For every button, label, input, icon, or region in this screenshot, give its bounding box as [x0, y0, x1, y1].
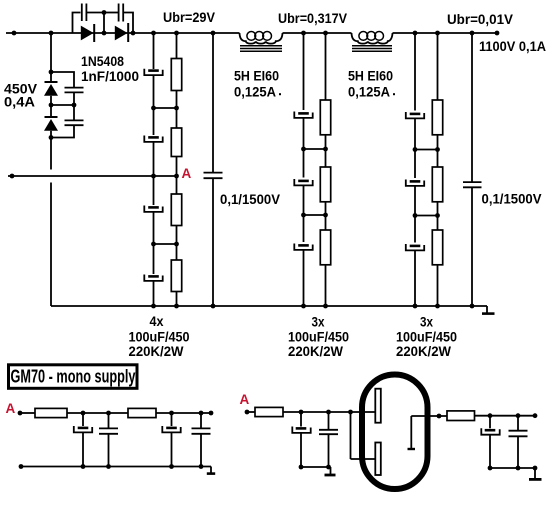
wire bottom-left input — [20, 412, 35, 414]
node lower rail CR4 — [516, 466, 521, 471]
bank1 rung node A row — [151, 174, 179, 179]
wire bottom-left lower rail — [21, 466, 211, 468]
node doubler mid junction — [49, 103, 54, 108]
wire tube anode out — [411, 415, 447, 417]
bank1 bottom nodes — [151, 304, 179, 309]
bank2 capacitor column segments — [303, 33, 305, 306]
resistor bank3 R2 — [432, 167, 442, 202]
svg-text:A: A — [240, 392, 250, 407]
resistor bank2 R2 — [320, 167, 330, 202]
svg-text:A: A — [182, 166, 192, 181]
node lower rail CR1 — [299, 465, 304, 470]
capacitor bank3 elco1 — [406, 112, 424, 118]
stray period after L1 label — [279, 93, 281, 95]
bank1 capacitor column segments — [153, 33, 155, 306]
inductor L2 5H choke — [352, 32, 393, 52]
bank3 capacitor column segments — [414, 33, 416, 306]
diode D1 1N5408 — [81, 24, 94, 42]
wire to tube bottom grid — [351, 458, 376, 460]
ground bottom-left — [207, 467, 215, 474]
diode D2 1N5408 — [115, 23, 128, 42]
capacitor bank1 elco4 100uF — [144, 275, 162, 281]
capacitor damper 0,1/1500V no1 — [204, 33, 223, 308]
node lower rail CL3 — [169, 464, 174, 469]
resistor bank3 R1 — [432, 100, 442, 135]
node top rail damper cap1 — [211, 31, 216, 36]
wire bottom-right output — [475, 415, 536, 417]
wire between D3 and D4 — [50, 96, 52, 117]
bank1 resistor column segments — [176, 33, 178, 306]
svg-text:1nF/1000: 1nF/1000 — [81, 69, 139, 84]
node lower rail end — [533, 466, 538, 471]
svg-text:220K/2W: 220K/2W — [129, 344, 184, 359]
wire bottom rail — [51, 305, 487, 307]
node top rail bank1 resistor column — [174, 31, 179, 36]
capacitor elco CL3 — [162, 413, 180, 467]
node lower rail CL4 — [199, 464, 204, 469]
wire bottom-left output — [156, 412, 211, 414]
wire snubber middle riser — [103, 13, 105, 34]
node snubber top junction — [102, 10, 107, 15]
node junction cap L4 — [199, 411, 204, 416]
node bottom-left output terminal — [209, 411, 214, 416]
svg-text:1N5408: 1N5408 — [81, 54, 124, 69]
resistor bank2 R1 — [320, 100, 330, 135]
wire bottom-right lower rail left — [301, 466, 331, 468]
node top rail bank2 resistor column — [323, 31, 328, 36]
resistor bank2 R3 — [320, 230, 330, 265]
wire left branch down to diodes — [50, 33, 52, 82]
resistor bank1 R3 220K — [171, 194, 181, 226]
resistor RL2 — [128, 408, 156, 417]
bank3 rung 1 — [413, 147, 440, 152]
node junction left branch — [49, 31, 54, 36]
wire top rail middle segment — [283, 32, 352, 34]
node junction cap R4 — [516, 413, 521, 418]
capacitor C4 parallel lower — [51, 105, 84, 138]
resistor RR2 — [447, 411, 475, 421]
capacitor elco CR3 — [481, 416, 499, 468]
resistor RL1 — [35, 408, 67, 417]
svg-text:220K/2W: 220K/2W — [288, 344, 343, 359]
resistor bank1 R2 220K — [171, 128, 181, 157]
node lower rail CL1 — [81, 464, 86, 469]
node tube grid junction — [348, 410, 353, 415]
capacitor damper 0,1/1500V no2 — [463, 33, 482, 308]
node C3 C4 junction — [72, 103, 77, 108]
svg-text:A: A — [6, 401, 16, 416]
svg-text:Ubr=29V: Ubr=29V — [163, 10, 215, 25]
node input terminal — [12, 31, 17, 36]
node lower rail CL2 — [106, 464, 111, 469]
svg-text:5H EI60: 5H EI60 — [234, 69, 279, 84]
svg-text:Ubr=0,317V: Ubr=0,317V — [278, 11, 347, 26]
bank3 resistor column segments — [437, 33, 439, 306]
resistor bank1 R1 220K — [171, 59, 181, 91]
capacitor C1 1nF snubber — [82, 4, 104, 22]
bank3 bottom nodes — [413, 304, 440, 309]
node top rail bank2 cap column — [301, 31, 306, 36]
node diode output junction — [102, 31, 107, 36]
svg-text:100uF/450: 100uF/450 — [129, 329, 190, 344]
svg-text:4x: 4x — [150, 314, 164, 329]
tube grid plate bottom — [375, 443, 381, 476]
wire top rail right segment — [393, 32, 498, 34]
wire below D4 — [50, 131, 52, 138]
capacitor bank2 elco2 — [294, 179, 312, 185]
bank2 resistor column segments — [325, 33, 327, 306]
bank3 rung 2 — [413, 213, 440, 218]
svg-text:3x: 3x — [312, 315, 325, 330]
snubber loop riser left — [73, 13, 81, 34]
bank1 rung 1 — [151, 106, 179, 111]
node top rail C bank1 cap column — [151, 31, 156, 36]
wire bottom-left mid — [67, 412, 128, 414]
capacitor bank1 elco3 100uF — [144, 206, 162, 212]
svg-text:5H EI60: 5H EI60 — [348, 69, 393, 84]
tube grid plate top — [375, 389, 381, 423]
bank1 rung 3 — [151, 242, 179, 247]
node top rail bank3 cap column — [413, 31, 418, 36]
svg-text:100uF/450: 100uF/450 — [396, 329, 457, 344]
wire top rail left segment — [6, 32, 240, 34]
wire bottom-right to tube — [283, 411, 351, 413]
node bottom-left input terminal — [18, 411, 23, 416]
svg-text:0,125A: 0,125A — [234, 85, 276, 100]
node junction cap L1 — [81, 411, 86, 416]
node center tap terminal — [10, 174, 15, 179]
capacitor bank1 elco2 100uF — [144, 136, 162, 142]
node doubler top junction — [49, 70, 54, 75]
svg-text:0,1/1500V: 0,1/1500V — [482, 192, 542, 207]
node junction cap R3 — [488, 413, 493, 418]
stray period after L2 label — [393, 93, 395, 95]
resistor RR1 — [255, 407, 283, 416]
capacitor C2 1nF snubber — [104, 4, 133, 34]
capacitor film CL2 — [99, 413, 118, 467]
svg-text:0,125A: 0,125A — [348, 85, 390, 100]
capacitor elco CR1 — [292, 412, 310, 467]
svg-text:0,1/1500V: 0,1/1500V — [220, 192, 280, 207]
node top rail damper cap2 — [470, 31, 475, 36]
node snubber right junction — [131, 31, 136, 36]
node lower rail CR2 — [326, 465, 331, 470]
node top rail bank3 resistor column — [435, 31, 440, 36]
wire bottom-right lower rail — [490, 467, 535, 469]
wire left branch to bottom rail with crossover gap — [50, 138, 52, 307]
capacitor bank2 elco1 — [294, 112, 312, 118]
node bottom-right input terminal — [245, 410, 250, 415]
node doubler bottom junction — [49, 135, 54, 140]
svg-text:3x: 3x — [420, 315, 433, 330]
GM70 title box — [9, 365, 138, 389]
capacitor bank2 elco3 — [294, 244, 312, 250]
capacitor film CR4 — [509, 416, 528, 468]
bank2 rung 1 — [301, 147, 328, 152]
node lower rail CR3 — [488, 466, 493, 471]
node junction cap R2 — [326, 410, 331, 415]
capacitor bank1 elco1 100uF — [144, 69, 162, 75]
capacitor elco CL1 — [74, 413, 92, 467]
bank2 rung 2 — [301, 213, 328, 218]
svg-text:0,4A: 0,4A — [4, 95, 35, 110]
capacitor film CL4 — [192, 413, 211, 467]
svg-text:Ubr=0,01V: Ubr=0,01V — [447, 12, 513, 27]
node junction cap R1 — [299, 410, 304, 415]
tube GM70 envelope — [362, 375, 428, 490]
tube cathode riser — [410, 416, 412, 449]
node bottom-right output terminal — [533, 413, 538, 418]
wire bottom-right input — [247, 411, 255, 413]
capacitor bank3 elco3 — [406, 244, 424, 250]
svg-text:100uF/450: 100uF/450 — [288, 329, 349, 344]
diode D4 — [44, 117, 58, 131]
svg-text:GM70 - mono supply: GM70 - mono supply — [11, 367, 136, 387]
wire center tap to node A — [8, 175, 177, 177]
node output terminal — [495, 31, 500, 36]
resistor bank1 R4 220K — [171, 260, 181, 292]
diode D3 — [44, 82, 58, 96]
wire tube grid riser — [350, 412, 352, 459]
capacitor C3 parallel upper — [51, 72, 84, 105]
capacitor bank3 elco2 — [406, 180, 424, 186]
wire to tube top grid — [351, 411, 376, 413]
resistor bank3 R3 — [432, 230, 442, 265]
ground bottom-middle — [325, 467, 336, 475]
bank2 bottom nodes — [301, 304, 328, 309]
ground bottom-right — [529, 468, 542, 479]
capacitor film CR2 — [319, 412, 338, 467]
svg-text:1100V 0,1A: 1100V 0,1A — [479, 39, 546, 54]
node lower rail terminal — [19, 464, 24, 469]
node junction cap L3 — [169, 411, 174, 416]
inductor L1 5H choke — [240, 32, 283, 52]
node junction cap L2 — [106, 411, 111, 416]
node tube output junction — [437, 414, 442, 419]
tube cathode foot bar — [408, 448, 416, 450]
svg-text:220K/2W: 220K/2W — [396, 344, 451, 359]
ground main — [482, 306, 495, 314]
